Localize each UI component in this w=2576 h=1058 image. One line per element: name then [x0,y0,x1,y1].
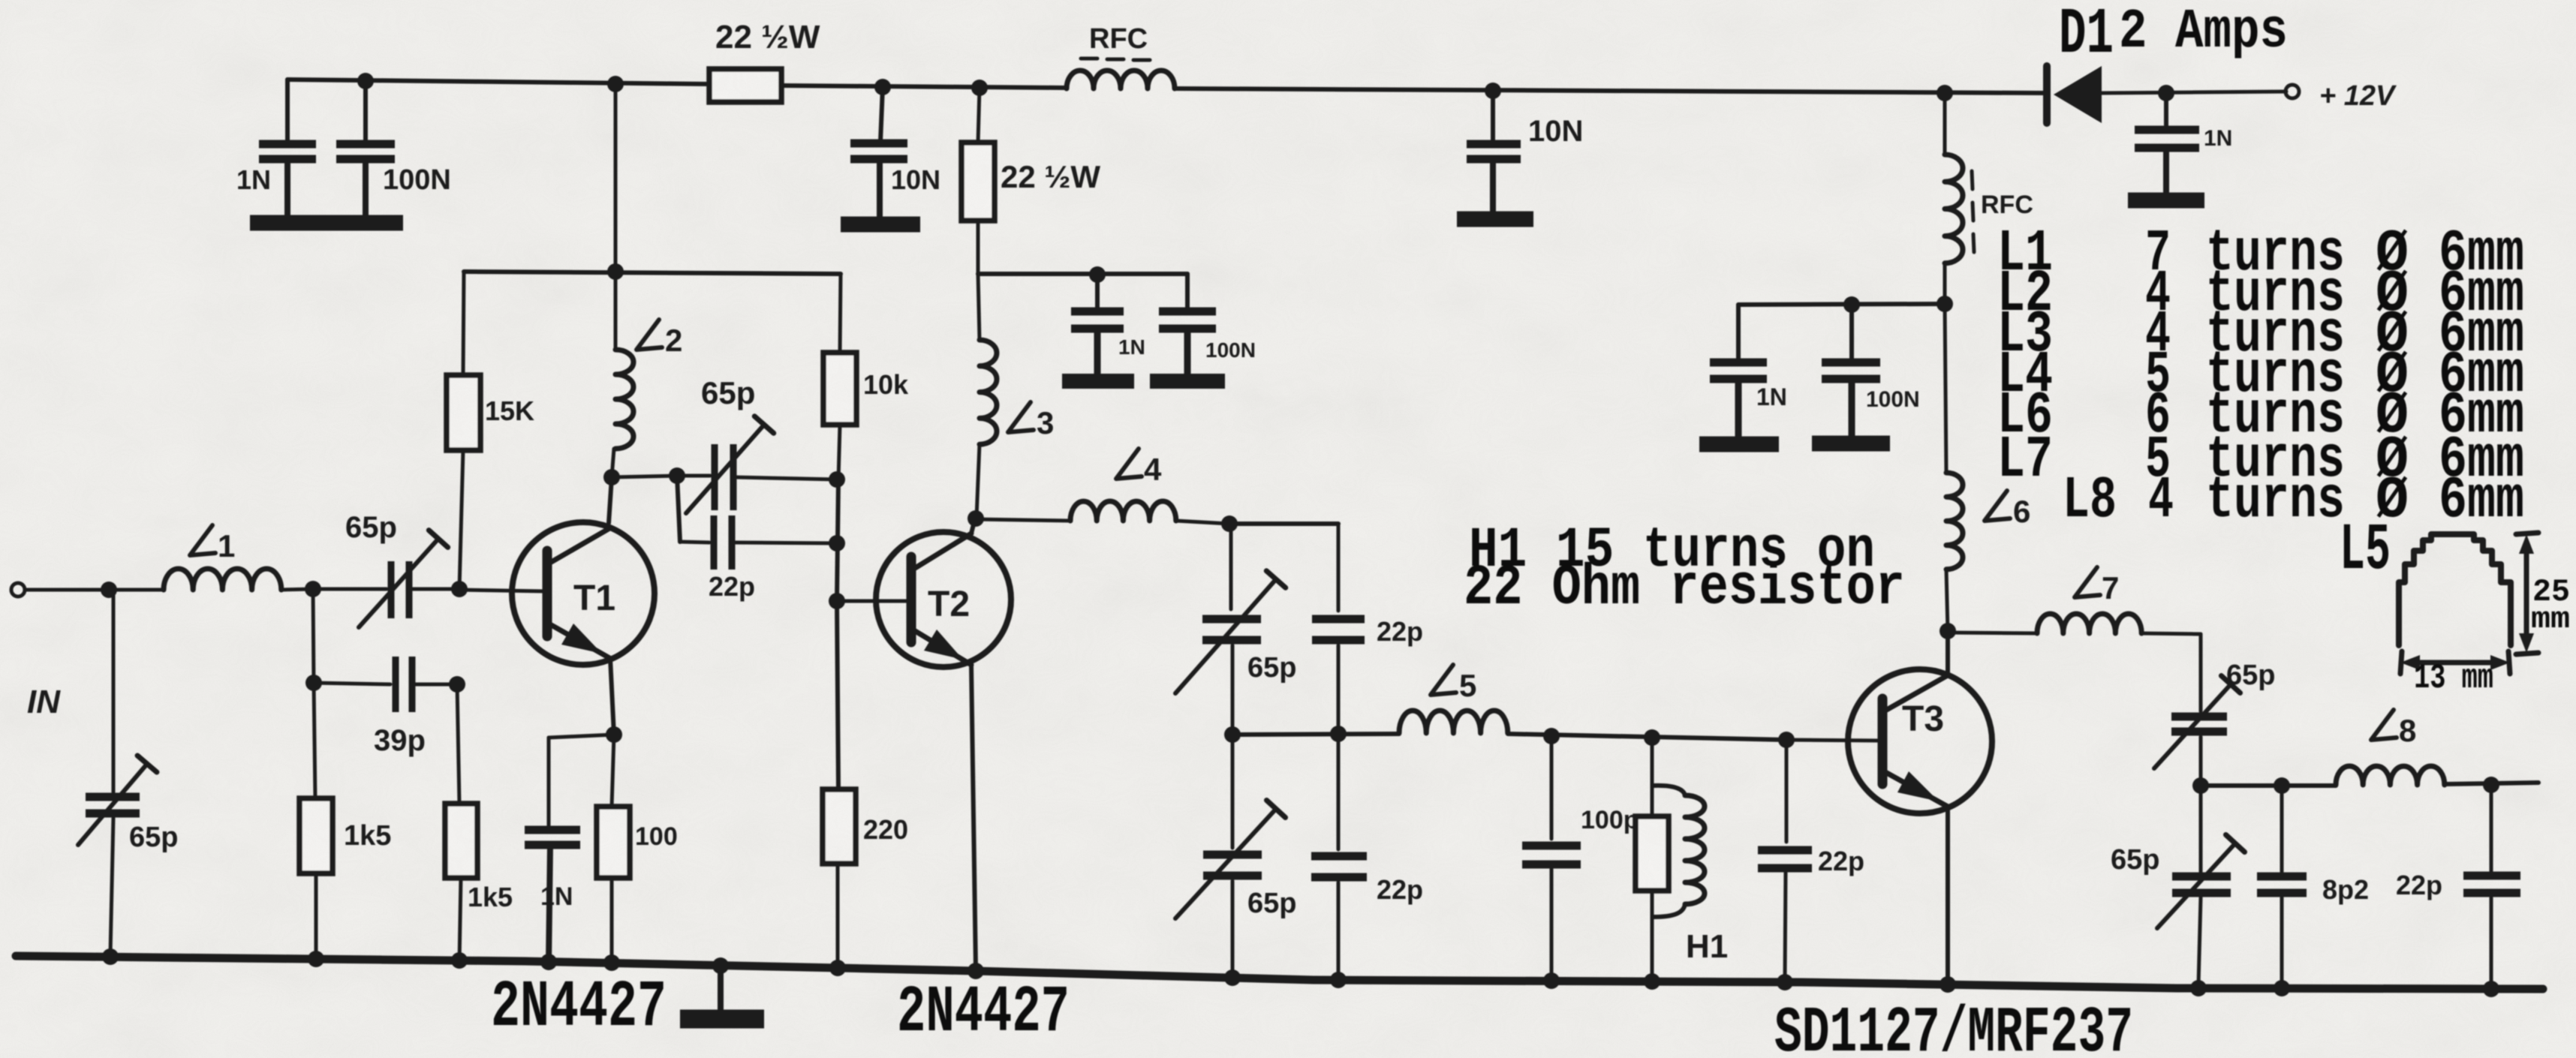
label 1N mid [1118,335,1145,359]
ground bar 1N third [1699,437,1779,452]
wire decoupling line T3 [1738,304,1945,305]
label 100p [1581,806,1639,834]
capacitor 22p interstage [677,476,837,570]
ground bar top-left [250,215,403,231]
label 65p interstage [701,375,755,410]
label H1 [1686,928,1728,965]
node L1 right [305,581,321,597]
label IN [27,684,61,720]
gnd node 65p input [102,948,119,965]
capacitor 8p2 [2257,786,2307,986]
capacitor 100N top-left [336,81,395,218]
inductor L8 [2336,766,2445,785]
capacitor 100N third [1822,305,1880,437]
label 65p L7 output [2226,660,2275,691]
label 65p filter lower [1247,888,1296,919]
label 1N third [1756,383,1787,410]
node RFC bottom [1937,296,1953,312]
diode D1 [2047,66,2286,123]
coil winding table L1-L7 [1997,220,2524,494]
ground bar 1N at +12V [2128,193,2204,209]
label L8 [2371,710,2416,748]
node 22p tap [669,467,685,484]
label 1N top-left [236,164,271,195]
node top rail 10N-1 [874,79,891,95]
capacitor 1N top-left [259,80,316,218]
label 100N third [1866,387,1920,412]
capacitor 10N first [850,87,907,218]
node T2 collector [968,510,984,527]
wire T2 collector lead [971,518,975,534]
ground bar 10N first [841,217,920,233]
label L1 [190,525,235,564]
node 39p right [449,676,465,693]
capacitor 10N second [1467,91,1521,212]
gnd node T3 emitter [1940,976,1956,993]
coil table L8 row [2063,467,2524,534]
RFC choke vertical [1945,93,1963,304]
node 1N cap at +12V [2158,85,2174,101]
label 65p output low [2111,844,2159,876]
gnd node 22p lower [1330,972,1347,988]
node H1 top [1644,729,1660,746]
label 1k5 first [344,820,391,852]
node top rail 22ohm vertical [971,80,988,96]
inductor L2 [612,272,633,477]
node 1N-2 top [1089,266,1106,283]
inductor L5 [1232,711,1786,740]
transistor T1 2N4427 [512,522,655,665]
ground symbol [680,966,764,1019]
node T1 emitter [606,726,622,743]
inductor L1 [109,569,313,590]
node L4 right [1221,515,1238,532]
wire top rail to bias [614,84,618,272]
gnd node 65p lower [1224,969,1241,986]
label 8p2 [2322,874,2369,905]
label 22p output [2396,870,2442,900]
wire T2 base lead [837,600,908,603]
capacitor 1N third [1710,305,1767,438]
wire L8 line [2201,783,2538,786]
label 65p series input [345,511,397,544]
wire T2 collector supply [978,272,1187,274]
wire T3 base lead [1786,740,1878,741]
trimmer 65p filter lower [1175,735,1286,972]
node top rail x820 [607,76,624,92]
note 22 Ohm resistor [1464,556,1905,621]
node bias-L2 [607,263,624,280]
gnd node 220 [829,960,846,976]
trimmer 65p input shunt [78,590,157,954]
label + 12V [2319,80,2397,112]
inductor L4 [977,501,1229,524]
label 13 mm [2414,659,2493,698]
wire T1 emitter lead [610,658,614,735]
gnd node 1N emitter [540,954,557,970]
wire T1 base lead [459,590,545,591]
gnd node 22p out [2483,981,2499,997]
wire T3 collector lead [1946,631,1950,675]
terminal IN [11,583,109,597]
label D1 [2059,0,2114,71]
RFC choke top horizontal [1067,71,1175,89]
gnd node 65p out [2190,980,2207,996]
node T3 collector [1940,623,1956,639]
inductor L6 [1945,304,1963,631]
ground bar 100N mid [1150,374,1225,389]
capacitor 22p filter upper [1312,524,1365,735]
resistor 1k5 second [445,684,477,963]
label L2 [636,320,682,358]
label L5 former [2340,514,2391,588]
label 22p T3 base [1818,846,1864,876]
wire T3 emitter lead [1946,807,1950,981]
label 2N4427 first [491,971,667,1045]
node base net 65p [829,471,845,488]
label 65p filter upper [1247,652,1296,684]
node IN junction [101,582,117,598]
node 22p-5 top [2483,777,2499,793]
gnd node 1k5 first [308,951,324,967]
node top-left cap junction [357,73,374,89]
node T2 base lead [829,593,845,609]
node base net 22p [829,535,845,552]
trimmer 65p interstage [612,416,837,513]
note H1 15 turns on [1469,518,1875,583]
wire T1 bias rail [464,272,841,274]
label 1k5 second [468,882,513,912]
H1 coil on 22 ohm resistor [1636,738,1705,978]
resistor 220 [823,789,856,967]
wire T1 collector lead [609,477,612,523]
gnd node symbol [712,957,729,974]
capacitor 22p output [2463,785,2520,988]
capacitor 39p [314,657,457,712]
label 10N first [891,164,940,195]
ground bar 100N third [1812,436,1890,452]
label L3 [1008,402,1054,440]
capacitor 1N mid [1071,275,1124,374]
trimmer 65p output low [2157,786,2245,984]
label 100N mid [1205,338,1256,362]
node L5 left [1224,726,1241,743]
gnd node 1k5 second [451,952,468,969]
L5 former outline [2399,534,2511,645]
gnd node H1 [1644,973,1660,990]
trimmer 65p series input [313,531,459,627]
node top rail 10N-2 [1485,83,1501,99]
wire T2 base vertical [837,479,838,789]
label 10k [863,369,909,400]
label 22p filter upper [1377,616,1423,647]
label 1N emitter [540,882,573,911]
capacitor 1N emitter [525,735,614,963]
capacitor 100p [1522,736,1581,976]
label RFC vertical [1972,171,2033,252]
label 15K [485,395,534,426]
wire top supply rail left segment [287,80,709,84]
gnd node 100p [1543,972,1560,989]
label 25 mm [2531,574,2570,637]
label 22p filter lower [1377,874,1423,905]
resistor 22 1/2W vertical [961,88,995,272]
resistor 100 [597,735,630,964]
label 2N4427 second [897,976,1070,1050]
label 22 1/2W vertical [1001,159,1100,194]
label L4 [1116,449,1162,487]
node 39p left [305,675,322,691]
label RFC top [1081,23,1150,60]
gnd node 100 [603,954,620,971]
label 65p input shunt [129,822,178,853]
wire top rail mid segment [1175,89,2047,93]
gnd node 8p2 [2274,980,2290,996]
node T1 base [451,581,468,597]
node T1 collector [603,469,620,485]
transistor T3 SD1127 [1848,669,1992,813]
label 39p [374,724,426,757]
node 8p2 top [2274,777,2290,794]
inductor L7 [1948,614,2201,634]
label 100 [635,822,678,851]
label L7 [2075,567,2119,606]
label 10N second [1528,115,1583,148]
label 22p interstage [709,571,755,602]
label L6 [1985,491,2030,529]
resistor 1k5 first [299,589,333,960]
wire 22p-2 top [1229,521,1338,526]
gnd node T2 emitter [968,963,984,979]
capacitor 1N at +12V [2135,93,2199,193]
resistor 15K [447,272,480,589]
label 1N at +12V [2204,126,2232,151]
L5 former horizontal dimension arrow [2400,651,2510,674]
label SD1127/MRF237 [1774,996,2133,1058]
node 100N-3 top [1843,296,1860,313]
L5 former vertical dimension arrow [2516,533,2538,654]
capacitor 22p T3 base [1758,740,1812,979]
label 220 [863,814,908,845]
ground bar 1N mid [1062,374,1134,389]
resistor 22 1/2W horizontal [709,69,1067,102]
terminal +12V [2286,85,2299,98]
node 22p-2 bottom [1330,726,1347,742]
trimmer 65p L7 output [2154,634,2240,786]
ground rail [16,956,2543,989]
label 2 Amps [2119,1,2288,64]
label L5 [1431,665,1476,703]
label 100N top-left [383,164,451,196]
inductor L3 [977,274,997,518]
wire T2 emitter lead [971,665,976,969]
node 100p top [1543,728,1560,744]
gnd node 22p T3 [1777,974,1793,990]
capacitor 22p filter lower [1311,734,1367,974]
resistor 10k [823,274,856,479]
transistor T2 2N4427 [876,532,1011,667]
node L8 input [2192,777,2209,794]
node top rail RFC vertical [1937,85,1953,101]
trimmer 65p filter upper [1175,524,1286,735]
node T3 base [1778,732,1795,748]
ground bar 10N second [1457,212,1533,227]
label 22 1/2W [715,19,820,56]
capacitor 100N mid [1159,274,1216,374]
